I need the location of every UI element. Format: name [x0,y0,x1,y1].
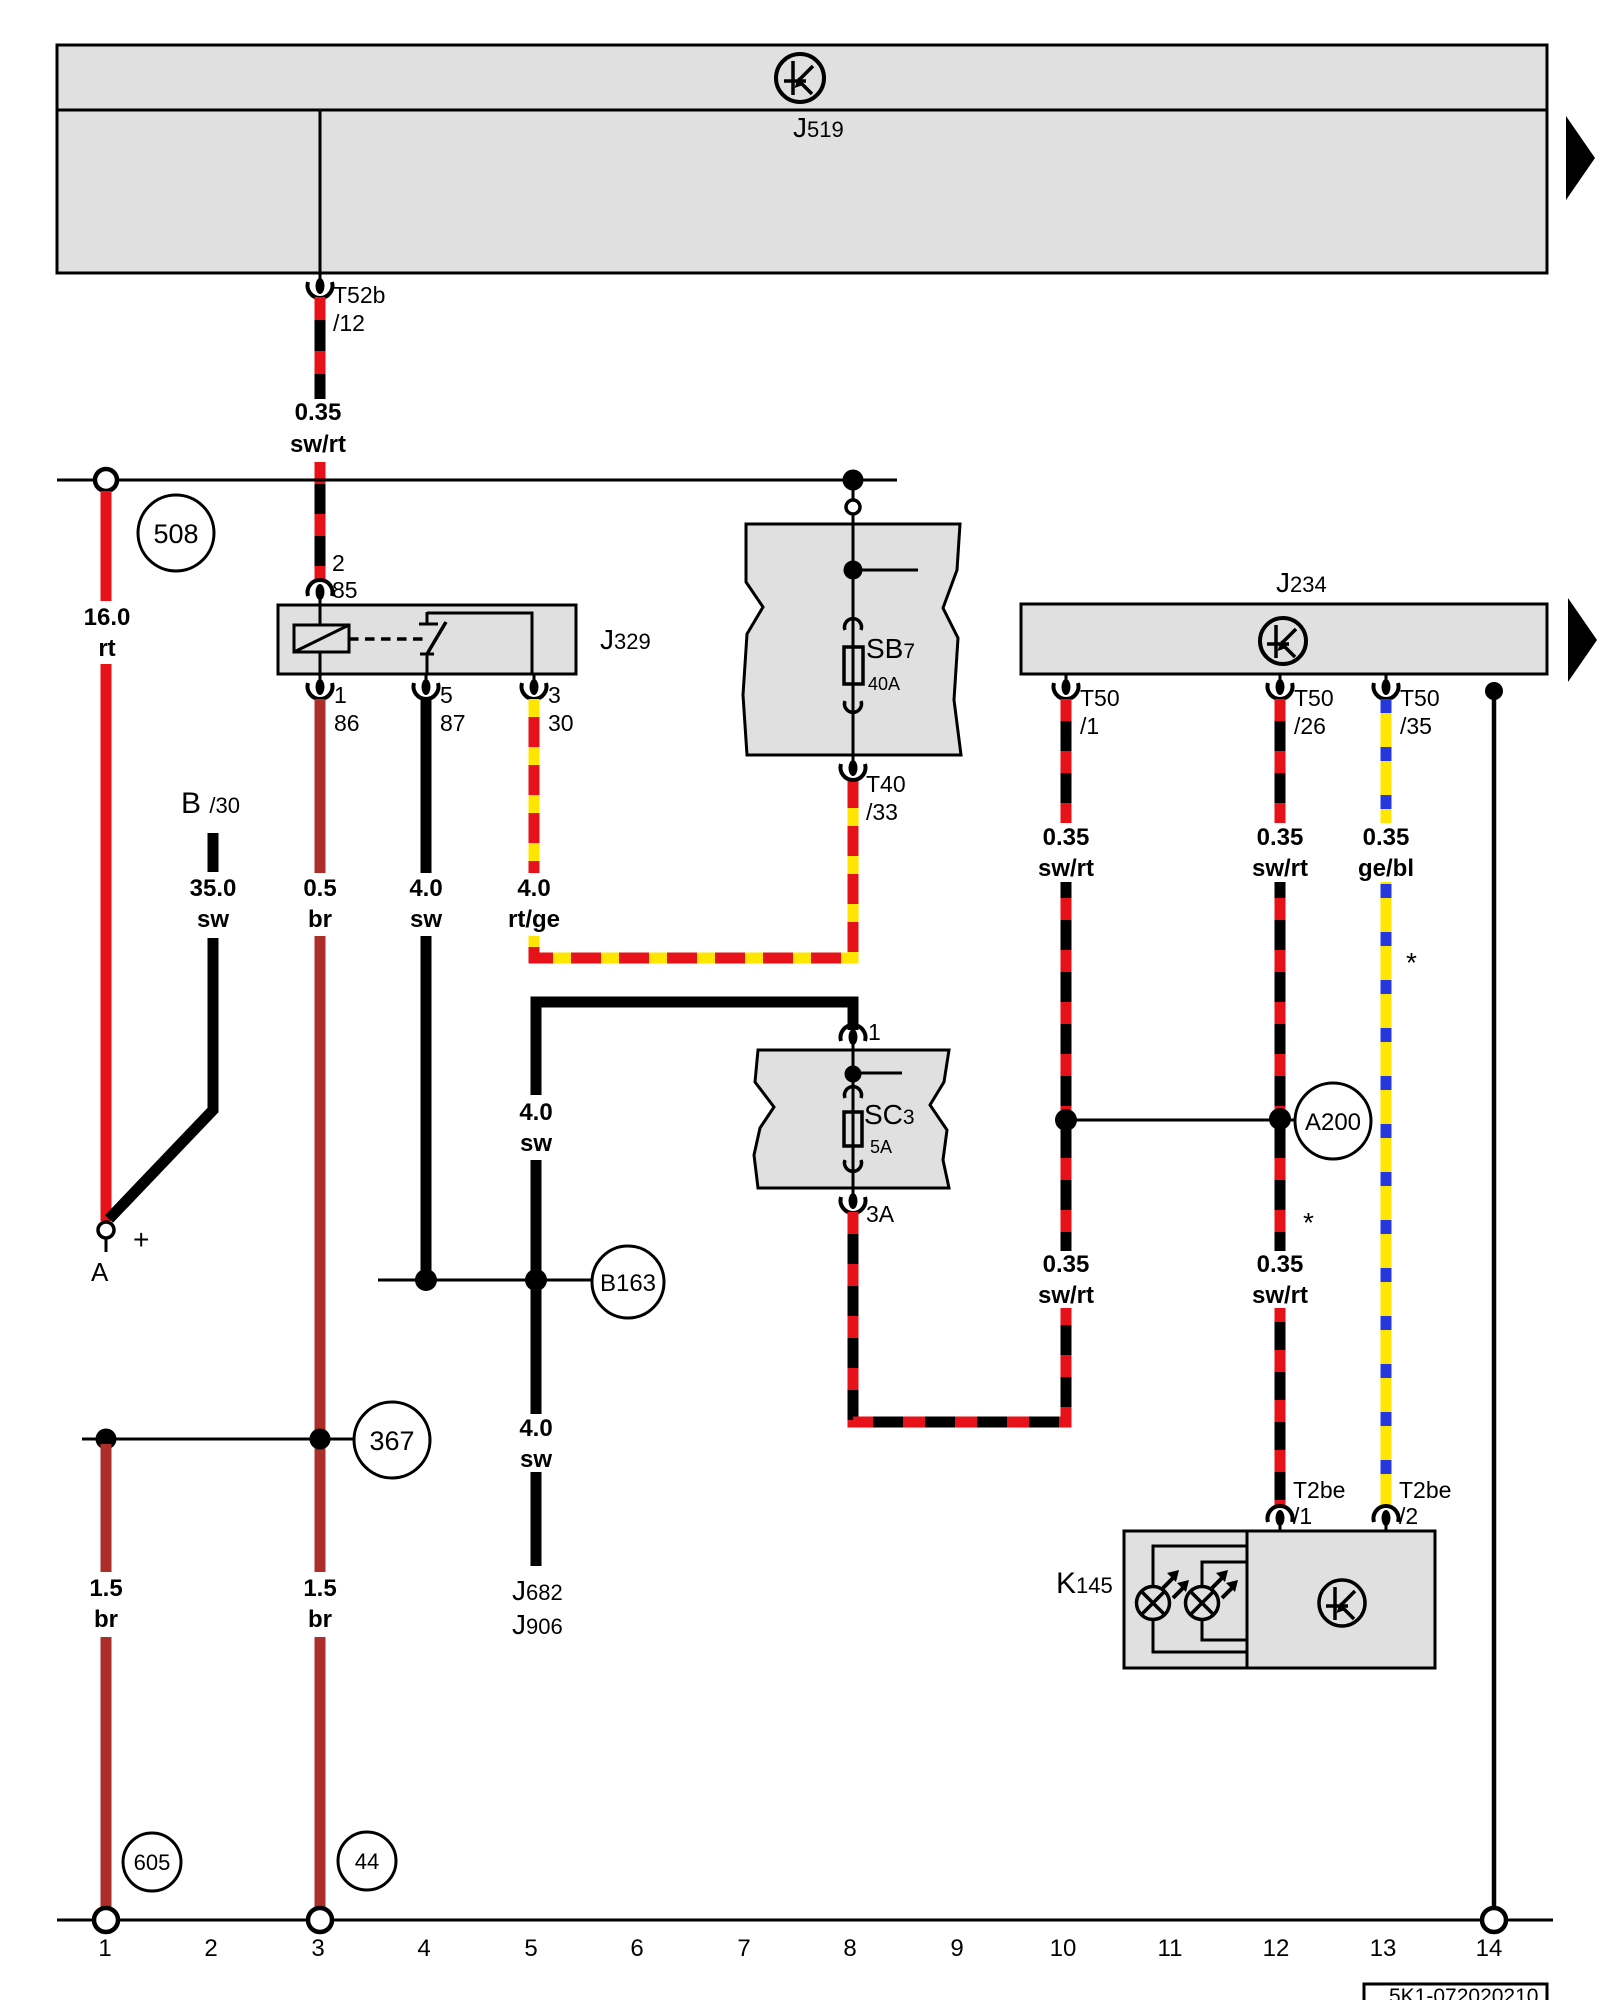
svg-text:/12: /12 [333,310,365,336]
net circle 508 [138,495,214,571]
bus symbol in K145 [1319,1580,1365,1626]
net line to circle 367 [82,1438,354,1441]
wire inside J519 down to T52b [319,110,322,273]
connector pin 3/30 of J329 [522,674,547,699]
svg-text:T2be: T2be [1293,1477,1345,1503]
fuse SC3 symbol [844,1087,862,1172]
svg-text:J329: J329 [600,624,651,655]
svg-text:605: 605 [134,1850,171,1875]
relay actuation dashed link [349,637,424,641]
svg-text:ge/bl: ge/bl [1358,855,1414,882]
svg-text:2: 2 [332,550,345,576]
wire 4.0 sw end segment [531,1472,542,1566]
svg-text:4.0: 4.0 [517,875,550,902]
wire 0.35 sw/rt from T52b (upper segment) [315,297,326,399]
svg-text:J234: J234 [1276,567,1327,598]
svg-text:sw/rt: sw/rt [1252,1282,1308,1309]
svg-text:10: 10 [1050,1935,1077,1962]
svg-text:35.0: 35.0 [190,875,237,902]
net line to circle A200 [1066,1119,1295,1122]
svg-text:sw/rt: sw/rt [290,431,346,458]
svg-text:12: 12 [1263,1935,1290,1962]
wire 1.5 br left upper segment [101,1444,112,1572]
svg-text:1: 1 [98,1935,111,1962]
connector pin 1 into SC3 [840,1025,865,1050]
svg-text:0.35: 0.35 [1257,824,1304,851]
connector pin 2/85 into J329 [308,580,333,605]
junction dot left on 367 line [96,1429,117,1450]
svg-text:A200: A200 [1305,1109,1361,1136]
connector T50/26 under J234 [1268,674,1293,699]
control unit J519 (onboard supply control unit box) [57,45,1547,273]
svg-text:/1: /1 [1293,1503,1312,1529]
svg-text:2: 2 [204,1935,217,1962]
wire 35.0 sw stub [208,833,219,872]
svg-text:A: A [91,1257,109,1287]
svg-text:5: 5 [440,682,453,708]
bus symbol in J519 [776,54,824,102]
svg-text:/26: /26 [1294,713,1326,739]
wire 0.35 ge/bl lower segment to K145 [1381,882,1392,1508]
svg-text:11: 11 [1158,1935,1183,1962]
svg-text:30: 30 [548,710,574,736]
svg-text:87: 87 [440,710,466,736]
connector T50/1 under J234 [1054,674,1079,699]
ground circle 605 [123,1833,181,1891]
svg-text:16.0: 16.0 [84,604,131,631]
svg-text:0.35: 0.35 [1363,824,1410,851]
svg-text:sw: sw [520,1130,552,1157]
ground node 14 [1482,1908,1506,1932]
net circle 367 [354,1402,430,1478]
svg-text:/35: /35 [1400,713,1432,739]
connector T52b/12 [308,273,333,298]
svg-text:4.0: 4.0 [519,1415,552,1442]
wire inside SB7 [852,524,855,755]
wire 4.0 rt/ge upper segment from pin 30 [529,699,540,873]
svg-text:B163: B163 [600,1270,656,1297]
svg-text:9: 9 [950,1935,963,1962]
ground rail [57,1919,1553,1922]
diagram code box [1364,1984,1547,2000]
svg-text:br: br [94,1606,118,1633]
svg-text:40A: 40A [868,674,900,694]
control unit J234 box [1021,604,1547,674]
connector 3A under SC3 [840,1188,865,1213]
svg-text:T50: T50 [1294,685,1334,711]
ground node 1 [94,1908,118,1932]
junction dot below J234 right [1485,682,1503,700]
svg-text:J682: J682 [512,1575,563,1606]
svg-text:/2: /2 [1399,1503,1418,1529]
svg-text:0.35: 0.35 [1043,1251,1090,1278]
wire 0.5 br upper segment [315,699,326,873]
junction dot at 4.0sw middle wire [525,1269,547,1291]
lamp 1 symbol [1137,1570,1190,1620]
wire 4.0 sw from pin 87 lower segment [421,936,432,1280]
lamp 2 symbol [1186,1570,1239,1620]
wire 0.35 sw/rt T50/26 lower segment to K145 [1275,1308,1286,1508]
wire br long segment down to ground [315,936,326,1572]
svg-text:0.5: 0.5 [303,875,336,902]
fuse SB7 symbol [844,619,863,713]
svg-text:sw: sw [520,1446,552,1473]
connector T2be/1 into K145 [1268,1506,1293,1531]
wire 4.0 sw middle lower segment [531,1160,542,1414]
svg-text:508: 508 [153,519,198,549]
horizontal wire rail at y=480 [57,479,897,482]
arrow continuation right of J234 [1568,598,1597,682]
separable connection circle above SB7 [846,500,860,514]
rail numbers 1-14 [98,1935,1502,1962]
svg-text:J519: J519 [793,112,844,143]
svg-text:T50: T50 [1400,685,1440,711]
svg-text:6: 6 [630,1935,643,1962]
svg-text:85: 85 [332,577,358,603]
svg-text:rt: rt [98,635,115,662]
ground node 3 [308,1908,332,1932]
fuse holder SC3 box (torn edges) [754,1050,949,1188]
svg-text:7: 7 [737,1935,750,1962]
svg-text:/33: /33 [866,799,898,825]
bus symbol in J234 [1260,618,1306,664]
wire 0.35 sw/rt from 3A to T50/1 riser [853,1212,1066,1422]
svg-text:sw: sw [197,906,229,933]
svg-text:4.0: 4.0 [409,875,442,902]
wire 4.0 rt/ge path to fuse SB7 output [534,778,853,958]
svg-text:*: * [1406,947,1417,978]
ground circle 44 [338,1832,396,1890]
svg-text:T52b: T52b [333,282,385,308]
wire 1.5 br left lower segment [101,1637,112,1908]
wire 35.0 sw vertical and diagonal segment to terminal A [109,938,213,1219]
connector pin 1/86 of J329 [308,674,333,699]
wire 0.35 sw/rt T50/26 upper segment [1275,699,1286,823]
svg-text:4: 4 [417,1935,430,1962]
svg-text:T2be: T2be [1399,1477,1451,1503]
K145 divider [1246,1531,1249,1668]
svg-text:367: 367 [369,1426,414,1456]
svg-text:1.5: 1.5 [89,1575,122,1602]
net line to circle B163 [378,1279,592,1282]
warning lamp unit K145 box [1124,1531,1435,1668]
connector T40/33 under SB7 [840,755,865,780]
connector pin 5/87 of J329 [414,674,439,699]
connector T2be/2 into K145 [1374,1506,1399,1531]
junction dot 367 on br wire (over wire) [310,1429,331,1450]
svg-text:14: 14 [1476,1935,1503,1962]
svg-text:T50: T50 [1080,685,1120,711]
wire 0.35 ge/bl upper segment [1381,699,1392,823]
svg-text:1.5: 1.5 [303,1575,336,1602]
svg-text:br: br [308,1606,332,1633]
svg-text:0.35: 0.35 [295,399,342,426]
connector T50/35 under J234 [1374,674,1399,699]
arrow continuation right of J519 [1566,116,1595,200]
K145 internal wiring outer loop [1153,1546,1247,1587]
svg-text:sw/rt: sw/rt [1252,855,1308,882]
svg-text:br: br [308,906,332,933]
svg-text:1: 1 [868,1019,881,1045]
svg-text:1: 1 [334,682,347,708]
junction dot A200 left [1055,1109,1077,1131]
K145 internal wiring inner loop [1202,1562,1247,1587]
relay coil [294,605,349,674]
svg-text:T40: T40 [866,771,906,797]
wire 4.0 sw from pin 87 upper segment [421,699,432,873]
junction dot right on 367 line [310,1429,331,1450]
svg-text:sw/rt: sw/rt [1038,1282,1094,1309]
wire 0.35 sw/rt T50/26 middle segment [1275,882,1286,1251]
svg-text:3A: 3A [866,1201,895,1227]
relay J329 box [278,605,576,674]
fuse holder SB7 box (torn edges) [743,524,961,755]
junction dot on rail above SB7 [843,470,864,491]
terminal A node circle [98,1222,114,1252]
wire 16.0 rt lower segment [101,664,112,1221]
svg-text:5A: 5A [870,1137,892,1157]
tap line inside SC3 [853,1072,902,1075]
svg-text:0.35: 0.35 [1257,1251,1304,1278]
svg-text:8: 8 [843,1935,856,1962]
svg-text:13: 13 [1370,1935,1397,1962]
junction dot inside SB7 [844,561,863,580]
net circle A200 [1295,1083,1371,1159]
wire 0.35 sw/rt T50/1 middle segment [1061,882,1072,1251]
svg-text:5K1-072020210: 5K1-072020210 [1389,1985,1538,2000]
svg-text:*: * [1303,1207,1314,1238]
svg-text:5: 5 [524,1935,537,1962]
svg-text:86: 86 [334,710,360,736]
wire 16.0 rt upper segment [101,491,112,601]
junction dot A200 right [1269,1108,1291,1130]
svg-text:0.35: 0.35 [1043,824,1090,851]
wire from rail down into SB7 [852,480,855,526]
wire 0.35 sw/rt T50/1 upper segment [1061,699,1072,823]
svg-text:44: 44 [355,1849,379,1874]
tap line inside SB7 [853,569,918,572]
wire inside SC3 [852,1050,855,1188]
svg-text:/1: /1 [1080,713,1099,739]
svg-text:+: + [133,1224,149,1255]
svg-text:3: 3 [548,682,561,708]
svg-text:J906: J906 [512,1609,563,1640]
wire 0.35 sw/rt (lower segment to pin 85) [315,462,326,580]
relay switch contact [419,612,446,674]
net circle B163 [592,1246,664,1318]
junction dot inside SC3 [845,1066,862,1083]
svg-text:4.0: 4.0 [519,1099,552,1126]
relay internal wire from switch to pin 3 [427,613,532,674]
wire 1.5 br right lower segment [315,1637,326,1908]
wire 4.0 sw link from SC3 pin 1 [536,1002,853,1095]
svg-text:sw: sw [410,906,442,933]
svg-text:rt/ge: rt/ge [508,906,560,933]
wire from J234 to ground 14 [1492,691,1497,1908]
open node circle left on rail [95,469,117,491]
svg-text:sw/rt: sw/rt [1038,855,1094,882]
svg-text:3: 3 [311,1935,324,1962]
junction dot at 4.0sw pin87 wire [415,1269,437,1291]
